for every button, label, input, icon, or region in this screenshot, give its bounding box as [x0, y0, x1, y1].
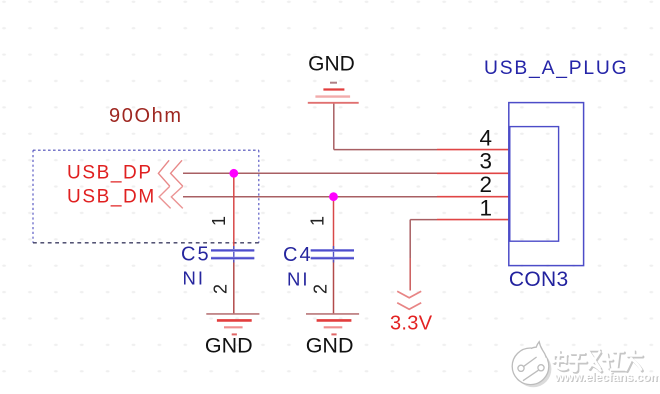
- ground label under C4: [306, 334, 354, 358]
- label 90Ohm: [109, 105, 183, 127]
- pin number 1: [479, 195, 492, 220]
- net label USB_DP: [67, 162, 153, 183]
- capacitor C4 designator: [283, 244, 313, 266]
- pin number 4: [479, 125, 492, 150]
- watermark chinese text: [553, 350, 643, 373]
- svg-text:90Ohm: 90Ohm: [109, 105, 183, 127]
- wire C4 upper vertical: [333, 197, 335, 250]
- connector CON3 outer body: [509, 103, 584, 266]
- svg-text:GND: GND: [308, 52, 355, 75]
- connector title USB_A_PLUG: [484, 58, 628, 79]
- wire C4 lower vertical: [333, 260, 335, 314]
- pin 3 stub: [437, 172, 509, 174]
- connector designator CON3: [509, 268, 569, 291]
- ground symbol under C4: [306, 314, 359, 335]
- capacitor C5 pin stub: [233, 246, 235, 263]
- ground label under C5: [205, 334, 253, 358]
- ground symbol top (inverted): [308, 83, 359, 103]
- pin number 2: [479, 172, 492, 197]
- pin 2 stub: [437, 196, 509, 198]
- svg-text:NI: NI: [183, 268, 206, 289]
- wire GND to pin4 horizontal: [334, 149, 437, 151]
- wire GND top vertical: [333, 102, 335, 149]
- capacitor C4 value NI: [287, 269, 310, 290]
- capacitor C5 plates: [211, 250, 254, 258]
- svg-text:2: 2: [211, 284, 231, 294]
- capacitor C4 pin stub: [333, 246, 335, 263]
- junction node USB_DP: [229, 169, 238, 178]
- svg-text:GND: GND: [205, 334, 253, 358]
- watermark logo tail: [531, 342, 547, 360]
- svg-text:1: 1: [308, 216, 328, 226]
- off-page connector chevrons USB_DP: [158, 160, 182, 186]
- power port 3.3V chevrons: [397, 291, 421, 309]
- svg-text:USB_DM: USB_DM: [67, 186, 156, 207]
- watermark url text: [554, 370, 660, 385]
- watermark logo traces: [518, 357, 544, 381]
- wire 3.3V vertical: [409, 220, 411, 258]
- ground symbol under C5: [206, 314, 259, 335]
- off-page connector chevrons USB_DM: [159, 186, 183, 208]
- svg-text:2: 2: [311, 284, 331, 294]
- wire pin1 horizontal: [410, 219, 437, 221]
- wire C5 upper vertical: [233, 173, 235, 249]
- wire USB_DP horizontal: [183, 172, 437, 174]
- pin number 3: [479, 149, 492, 174]
- pin number 2 of C5: [211, 284, 231, 294]
- svg-text:NI: NI: [287, 269, 310, 290]
- pin number 1 of C5: [209, 216, 229, 226]
- svg-text:GND: GND: [306, 334, 354, 358]
- svg-text:CON3: CON3: [509, 268, 569, 291]
- wire USB_DM horizontal: [183, 196, 437, 198]
- capacitor C5 value NI: [183, 268, 206, 289]
- wire C5 lower vertical: [233, 260, 235, 314]
- svg-text:C5: C5: [181, 244, 211, 266]
- wire 3.3V vertical lower: [409, 258, 411, 291]
- svg-text:1: 1: [209, 216, 229, 226]
- pin 1 stub: [437, 219, 509, 221]
- impedance group dashed box: [33, 150, 259, 243]
- pin number 2 of C4: [311, 284, 331, 294]
- svg-text:1: 1: [479, 195, 492, 220]
- pin 4 stub: [437, 149, 509, 151]
- svg-text:4: 4: [479, 125, 492, 150]
- watermark logo shadow: [515, 351, 551, 387]
- svg-text:USB_DP: USB_DP: [67, 162, 153, 183]
- capacitor C5 designator: [181, 244, 211, 266]
- net label USB_DM: [67, 186, 156, 207]
- capacitor C4 plates: [311, 250, 354, 258]
- svg-text:C4: C4: [283, 244, 313, 266]
- svg-text:USB_A_PLUG: USB_A_PLUG: [484, 58, 628, 79]
- svg-text:3.3V: 3.3V: [390, 313, 433, 335]
- connector CON3 inner tongue: [510, 127, 559, 242]
- svg-text:www.elecfans.com: www.elecfans.com: [554, 370, 660, 384]
- junction node USB_DM: [329, 192, 338, 201]
- ground label top: [308, 52, 355, 75]
- svg-text:2: 2: [479, 172, 492, 197]
- power label 3.3V: [390, 313, 433, 335]
- watermark logo bubble: [512, 348, 549, 385]
- svg-text:3: 3: [479, 149, 492, 174]
- pin number 1 of C4: [308, 216, 328, 226]
